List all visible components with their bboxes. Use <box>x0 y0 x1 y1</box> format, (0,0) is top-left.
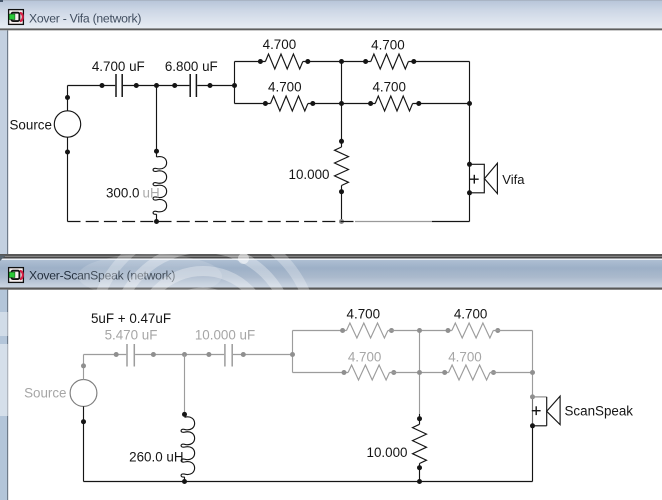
svg-text:4.700 uF: 4.700 uF <box>92 59 145 74</box>
wire source to C3 (gray) <box>84 354 127 356</box>
wire source top lead (gray) <box>83 355 85 380</box>
capacitor C2 6.800 uF <box>190 74 196 97</box>
wire source to C1 <box>68 85 116 87</box>
svg-text:4.700: 4.700 <box>454 306 488 321</box>
junction <box>310 101 315 106</box>
svg-text:5uF + 0.47uF: 5uF + 0.47uF <box>91 311 171 326</box>
inductor L2 260.0 uH <box>181 355 195 482</box>
junction <box>182 412 187 417</box>
source V2 (gray) <box>70 380 97 407</box>
junction <box>339 59 344 64</box>
resistor R8 zigzag <box>348 365 389 380</box>
svg-text:4.700: 4.700 <box>268 79 302 94</box>
junction <box>495 328 500 333</box>
junction <box>182 479 187 484</box>
resistor R10 value label <box>367 445 408 460</box>
junction <box>417 479 422 484</box>
wire left bracket (gray) <box>292 331 294 373</box>
junction <box>363 59 368 64</box>
wire center column to R2 <box>341 61 371 63</box>
wire to R6 <box>293 330 347 332</box>
speaker + terminal junction <box>530 394 535 399</box>
junction <box>342 370 347 375</box>
wire source top lead <box>67 86 69 111</box>
svg-text:5.470 uF: 5.470 uF <box>105 328 158 343</box>
capacitor C4 10.000 uF (gray) <box>225 344 232 367</box>
junction <box>491 370 496 375</box>
svg-text:ScanSpeak: ScanSpeak <box>565 404 634 419</box>
speaker - terminal junction <box>530 423 535 428</box>
capacitor C3 value label <box>105 328 158 343</box>
junction <box>81 363 86 368</box>
speaker ScanSpeak <box>532 396 560 426</box>
resistor R6 zigzag <box>347 323 388 338</box>
junction <box>530 370 535 375</box>
junction <box>368 101 373 106</box>
wire to R3 <box>235 103 271 105</box>
resistor R7 zigzag <box>452 323 493 338</box>
svg-text:4.700: 4.700 <box>371 37 405 52</box>
wire R6 to center column <box>388 330 420 332</box>
junction <box>258 59 263 64</box>
speaker + terminal junction <box>467 162 472 167</box>
resistor R7 value label <box>454 306 488 321</box>
svg-text:Source: Source <box>10 117 52 132</box>
window 1 title bar <box>0 0 662 30</box>
resistor R9 zigzag <box>449 365 490 380</box>
window 2 title text <box>29 269 175 283</box>
junction <box>241 352 246 357</box>
speaker Vifa label <box>502 172 525 187</box>
resistor R5 value label <box>289 167 330 182</box>
speaker ScanSpeak label <box>565 404 634 419</box>
junction <box>154 149 159 154</box>
svg-text:10.000: 10.000 <box>367 445 408 460</box>
junction <box>263 101 268 106</box>
wire center column to R4 <box>341 103 375 105</box>
resistor R1 zigzag <box>265 54 302 69</box>
center column wire (window 2) <box>419 331 421 482</box>
wire C2 to resistor bank <box>197 85 234 87</box>
svg-text:300.0: 300.0 <box>106 186 140 201</box>
wire to R1 <box>235 61 266 63</box>
junction <box>134 83 139 88</box>
inductor L1 300.0 uH <box>153 86 167 222</box>
wire left bracket <box>234 62 236 104</box>
junction <box>100 83 105 88</box>
bottom rail wire (window 2) <box>84 426 533 482</box>
capacitor C1 value label <box>92 59 145 74</box>
resistor R3 value label <box>268 79 302 94</box>
wire R1 to center column <box>303 61 341 63</box>
svg-text:10.000 uF: 10.000 uF <box>195 328 255 343</box>
svg-text:Xover - Vifa (network): Xover - Vifa (network) <box>29 12 141 26</box>
svg-text:4.700: 4.700 <box>372 79 406 94</box>
junction <box>417 465 422 470</box>
wire source bottom lead <box>67 137 69 221</box>
app icon (window 2 title bar) <box>9 268 24 283</box>
svg-text:260.0 uH: 260.0 uH <box>129 450 183 465</box>
wire center column to R7 <box>420 330 452 332</box>
junction <box>417 328 422 333</box>
svg-text:Source: Source <box>24 386 66 401</box>
bottom rail wire (watermark-dashed) <box>68 193 470 222</box>
source V1 label <box>10 117 52 132</box>
junction <box>114 352 119 357</box>
right column wire <box>469 62 471 165</box>
watermark (decorative arcs) <box>78 225 314 447</box>
wire to R8 <box>293 372 349 374</box>
capacitor C1 4.700 uF <box>116 74 122 97</box>
wire C1 to C2 <box>123 85 189 87</box>
resistor R5 zigzag <box>335 147 349 186</box>
svg-text:4.700: 4.700 <box>347 306 381 321</box>
wire R7 to right column <box>493 330 532 332</box>
node A junction <box>154 83 159 88</box>
window 2 canvas frame <box>0 290 8 500</box>
source V2 label <box>24 386 66 401</box>
junction <box>442 370 447 375</box>
inductor L2 value label 260.0 uH <box>129 450 183 465</box>
junction <box>467 101 472 106</box>
resistor R9 value label <box>448 350 482 365</box>
wire center column to R9 <box>420 372 449 374</box>
svg-text:Vifa: Vifa <box>502 172 525 187</box>
resistor R4 value label <box>372 79 406 94</box>
junction <box>389 328 394 333</box>
svg-text:4.700: 4.700 <box>263 37 297 52</box>
resistor R10 zigzag <box>413 424 427 463</box>
window 1 title text <box>29 12 141 26</box>
svg-text:4.700: 4.700 <box>348 350 382 365</box>
right column wire (gray) <box>532 331 534 397</box>
speaker - terminal junction <box>467 190 472 195</box>
junction <box>232 83 237 88</box>
junction <box>340 328 345 333</box>
wire C3 to C4 (gray) <box>135 354 224 356</box>
junction <box>339 219 344 224</box>
svg-text:4.700: 4.700 <box>448 350 482 365</box>
node B junction <box>182 352 187 357</box>
wire C4 to resistor bank (gray) <box>233 354 293 356</box>
junction <box>172 83 177 88</box>
resistor R2 zigzag <box>371 54 409 69</box>
wire R3 to center column <box>308 103 341 105</box>
junction <box>391 370 396 375</box>
resistor R3 zigzag <box>271 96 308 111</box>
svg-text:6.800 uF: 6.800 uF <box>165 59 218 74</box>
junction <box>305 59 310 64</box>
window 2 title bar <box>0 256 662 500</box>
junction <box>339 139 344 144</box>
wire R2 to right column <box>408 61 469 63</box>
speaker Vifa <box>470 163 498 193</box>
wire R8 to center column <box>390 372 420 374</box>
resistor R6 value label <box>347 306 381 321</box>
wire source bottom lead <box>83 406 85 481</box>
wire R4 to right column <box>413 103 470 105</box>
resistor R8 value label <box>348 350 382 365</box>
capacitor C3 5.470 uF (gray) <box>127 344 134 367</box>
inductor L1 value label 300.0 uH <box>106 186 160 201</box>
junction <box>411 59 416 64</box>
junction <box>206 352 211 357</box>
junction <box>339 101 344 106</box>
junction <box>290 352 295 357</box>
junction <box>151 352 156 357</box>
junction <box>339 189 344 194</box>
junction <box>417 416 422 421</box>
source V1 <box>54 111 80 137</box>
capacitor C2 value label <box>165 59 218 74</box>
center column wire <box>341 62 343 222</box>
resistor R4 zigzag <box>375 96 412 111</box>
junction <box>81 419 86 424</box>
svg-text:10.000: 10.000 <box>289 167 330 182</box>
wire R9 to right column <box>490 372 533 374</box>
junction <box>208 83 213 88</box>
svg-text:uH: uH <box>143 186 160 201</box>
capacitor C4 value label <box>195 328 255 343</box>
junction <box>416 101 421 106</box>
capacitor C3 formula label 5uF + 0.47uF <box>91 311 171 326</box>
junction <box>417 370 422 375</box>
app icon (window 1 title bar) <box>9 10 24 25</box>
junction <box>65 150 70 155</box>
resistor R2 value label <box>371 37 405 52</box>
window 1 canvas frame <box>0 30 662 256</box>
junction <box>154 219 159 224</box>
junction <box>65 95 70 100</box>
junction <box>446 328 451 333</box>
resistor R1 value label <box>263 37 297 52</box>
